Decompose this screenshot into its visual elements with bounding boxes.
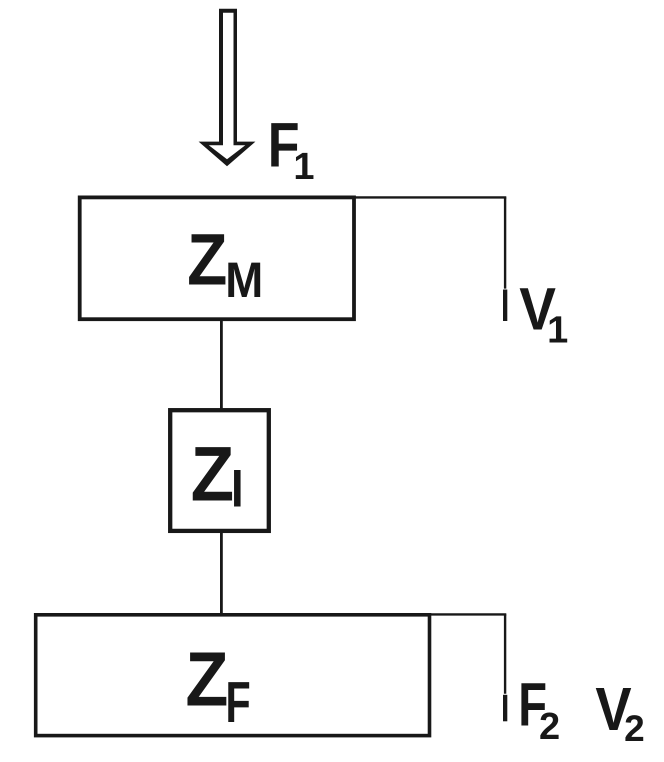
tick mark at F2 <box>503 695 507 722</box>
svg-text:M: M <box>225 252 263 308</box>
label F1 <box>268 110 315 188</box>
box ZM (mass impedance) <box>80 197 354 319</box>
svg-text:2: 2 <box>539 706 560 748</box>
wire down to V1 (vertical) <box>504 197 506 288</box>
label ZF <box>185 637 250 736</box>
wire down to F2 (vertical) <box>504 614 506 693</box>
wire ZI bottom to ZF top <box>220 531 223 615</box>
force arrow F1 (inner white cutout) <box>209 13 246 160</box>
label F2 <box>518 671 560 748</box>
wire ZM bottom to ZI top <box>220 318 223 411</box>
wire from ZF top-right to F2 (horizontal) <box>428 613 506 615</box>
svg-text:F: F <box>226 670 251 735</box>
label V1 <box>519 276 568 352</box>
svg-text:2: 2 <box>624 708 645 749</box>
label ZM <box>187 219 263 308</box>
svg-text:Z: Z <box>185 637 228 723</box>
label ZI <box>191 431 244 518</box>
box ZI (isolator impedance) <box>170 410 269 531</box>
tick mark at V1 <box>503 290 507 322</box>
svg-text:1: 1 <box>293 146 314 188</box>
svg-text:Z: Z <box>191 431 235 517</box>
label V2 <box>595 675 644 749</box>
force arrow F1 (hollow down arrow, outer silhouette) <box>199 9 256 167</box>
svg-text:Z: Z <box>187 219 227 300</box>
svg-text:I: I <box>231 459 244 518</box>
box ZF (foundation impedance) <box>36 615 430 736</box>
wire from ZM top-right to V1 (horizontal) <box>354 196 506 198</box>
svg-text:1: 1 <box>547 310 568 352</box>
